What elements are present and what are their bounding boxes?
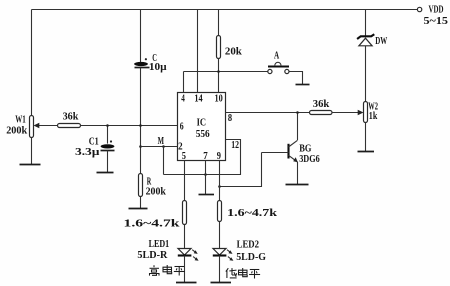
resistor 36k right <box>310 98 333 114</box>
wire top VDD bus <box>32 9 418 11</box>
wire pin 14 <box>197 10 199 93</box>
svg-text:5~15: 5~15 <box>424 15 449 27</box>
wire LED1 to ground <box>184 256 186 283</box>
ground pin 7 <box>199 194 215 196</box>
ground C1 <box>97 172 114 174</box>
svg-text:36k: 36k <box>313 98 330 110</box>
node VDD terminal <box>417 7 421 11</box>
ground W1 <box>20 164 41 166</box>
svg-text:7: 7 <box>203 150 208 162</box>
wire collector drop <box>297 113 299 141</box>
svg-text:4: 4 <box>181 92 185 104</box>
svg-text:6: 6 <box>180 120 184 132</box>
wire W1 bottom <box>31 138 33 165</box>
resistor 36k left <box>58 111 81 128</box>
wire DW top <box>365 10 367 37</box>
svg-text:14: 14 <box>194 92 203 104</box>
op-amp U1 IC 556 body <box>178 92 240 162</box>
svg-text:1k: 1k <box>369 110 378 122</box>
label gao dian ping (high level) <box>150 265 185 276</box>
wire pin 7 down <box>205 161 207 195</box>
wire reset line <box>184 71 268 73</box>
wire to LED2 <box>219 222 221 249</box>
wire pin2 node to threshold line <box>163 147 165 175</box>
wire pin 9 down <box>219 161 221 201</box>
wire 20k top <box>218 10 220 36</box>
wire 36k to W2 wiper <box>332 112 359 114</box>
svg-text:5LD-G: 5LD-G <box>236 251 266 263</box>
wire pin 5 down <box>184 161 186 201</box>
wire W1 top <box>31 10 33 117</box>
wire 20k bottom to pin 10 <box>218 59 220 93</box>
capacitor C <box>134 10 167 73</box>
transistor Q1 BG 3DG6 <box>262 140 321 165</box>
svg-text:200k: 200k <box>6 124 28 136</box>
ground emitter <box>286 184 309 186</box>
svg-text:1.6~4.7k: 1.6~4.7k <box>227 207 278 219</box>
ground W2 <box>358 151 375 153</box>
label di dian ping (low level) <box>226 268 260 279</box>
svg-text:5: 5 <box>182 150 187 162</box>
wire pin 8 line <box>226 112 310 114</box>
resistor R <box>139 174 167 198</box>
svg-text:8: 8 <box>228 112 233 124</box>
wire to LED1 <box>184 225 186 249</box>
wire W2 bottom <box>365 123 367 152</box>
svg-text:3DG6: 3DG6 <box>299 153 320 165</box>
svg-text:36k: 36k <box>63 111 80 123</box>
ground LED1 <box>176 282 197 284</box>
svg-text:10: 10 <box>215 92 224 104</box>
potentiometer W1 <box>6 113 57 137</box>
svg-text:556: 556 <box>196 128 210 140</box>
diode DW zener <box>357 34 387 47</box>
wire threshold line to pin 12 <box>164 140 241 175</box>
svg-text:5LD-R: 5LD-R <box>137 249 168 261</box>
svg-text:LED2: LED2 <box>237 238 260 250</box>
wire to pin 6 <box>81 125 178 127</box>
svg-text:A: A <box>274 51 280 62</box>
ground LED2 <box>211 282 232 284</box>
svg-text:10µ: 10µ <box>149 61 167 73</box>
ground switch <box>296 84 310 86</box>
svg-text:DW: DW <box>375 35 387 47</box>
svg-text:1.6~4.7k: 1.6~4.7k <box>124 217 181 229</box>
LED1 <box>137 238 198 261</box>
wire base to pin9 net <box>220 153 262 187</box>
LED2 <box>213 238 267 263</box>
wire emitter to ground <box>297 162 299 185</box>
svg-text:9: 9 <box>217 150 222 162</box>
svg-text:3.3µ: 3.3µ <box>75 146 100 158</box>
resistor 20k <box>217 36 243 59</box>
ground R <box>129 208 148 210</box>
wire LED2 to ground <box>219 256 221 283</box>
wire R bottom <box>140 197 142 209</box>
svg-text:20k: 20k <box>225 46 243 58</box>
resistor 1.6~4.7k right <box>218 201 279 222</box>
svg-text:12: 12 <box>231 139 239 151</box>
resistor 1.6~4.7k left <box>124 201 187 230</box>
wire C bottom to R <box>140 68 142 174</box>
wire pin 4 <box>183 72 185 93</box>
wire pin 2 / node M <box>141 146 178 148</box>
wire DW to W2 <box>365 46 367 102</box>
capacitor C1 <box>75 124 115 172</box>
wire switch to ground <box>289 72 303 85</box>
switch A <box>268 51 289 74</box>
svg-text:200k: 200k <box>146 185 167 197</box>
potentiometer W2 <box>364 101 379 123</box>
